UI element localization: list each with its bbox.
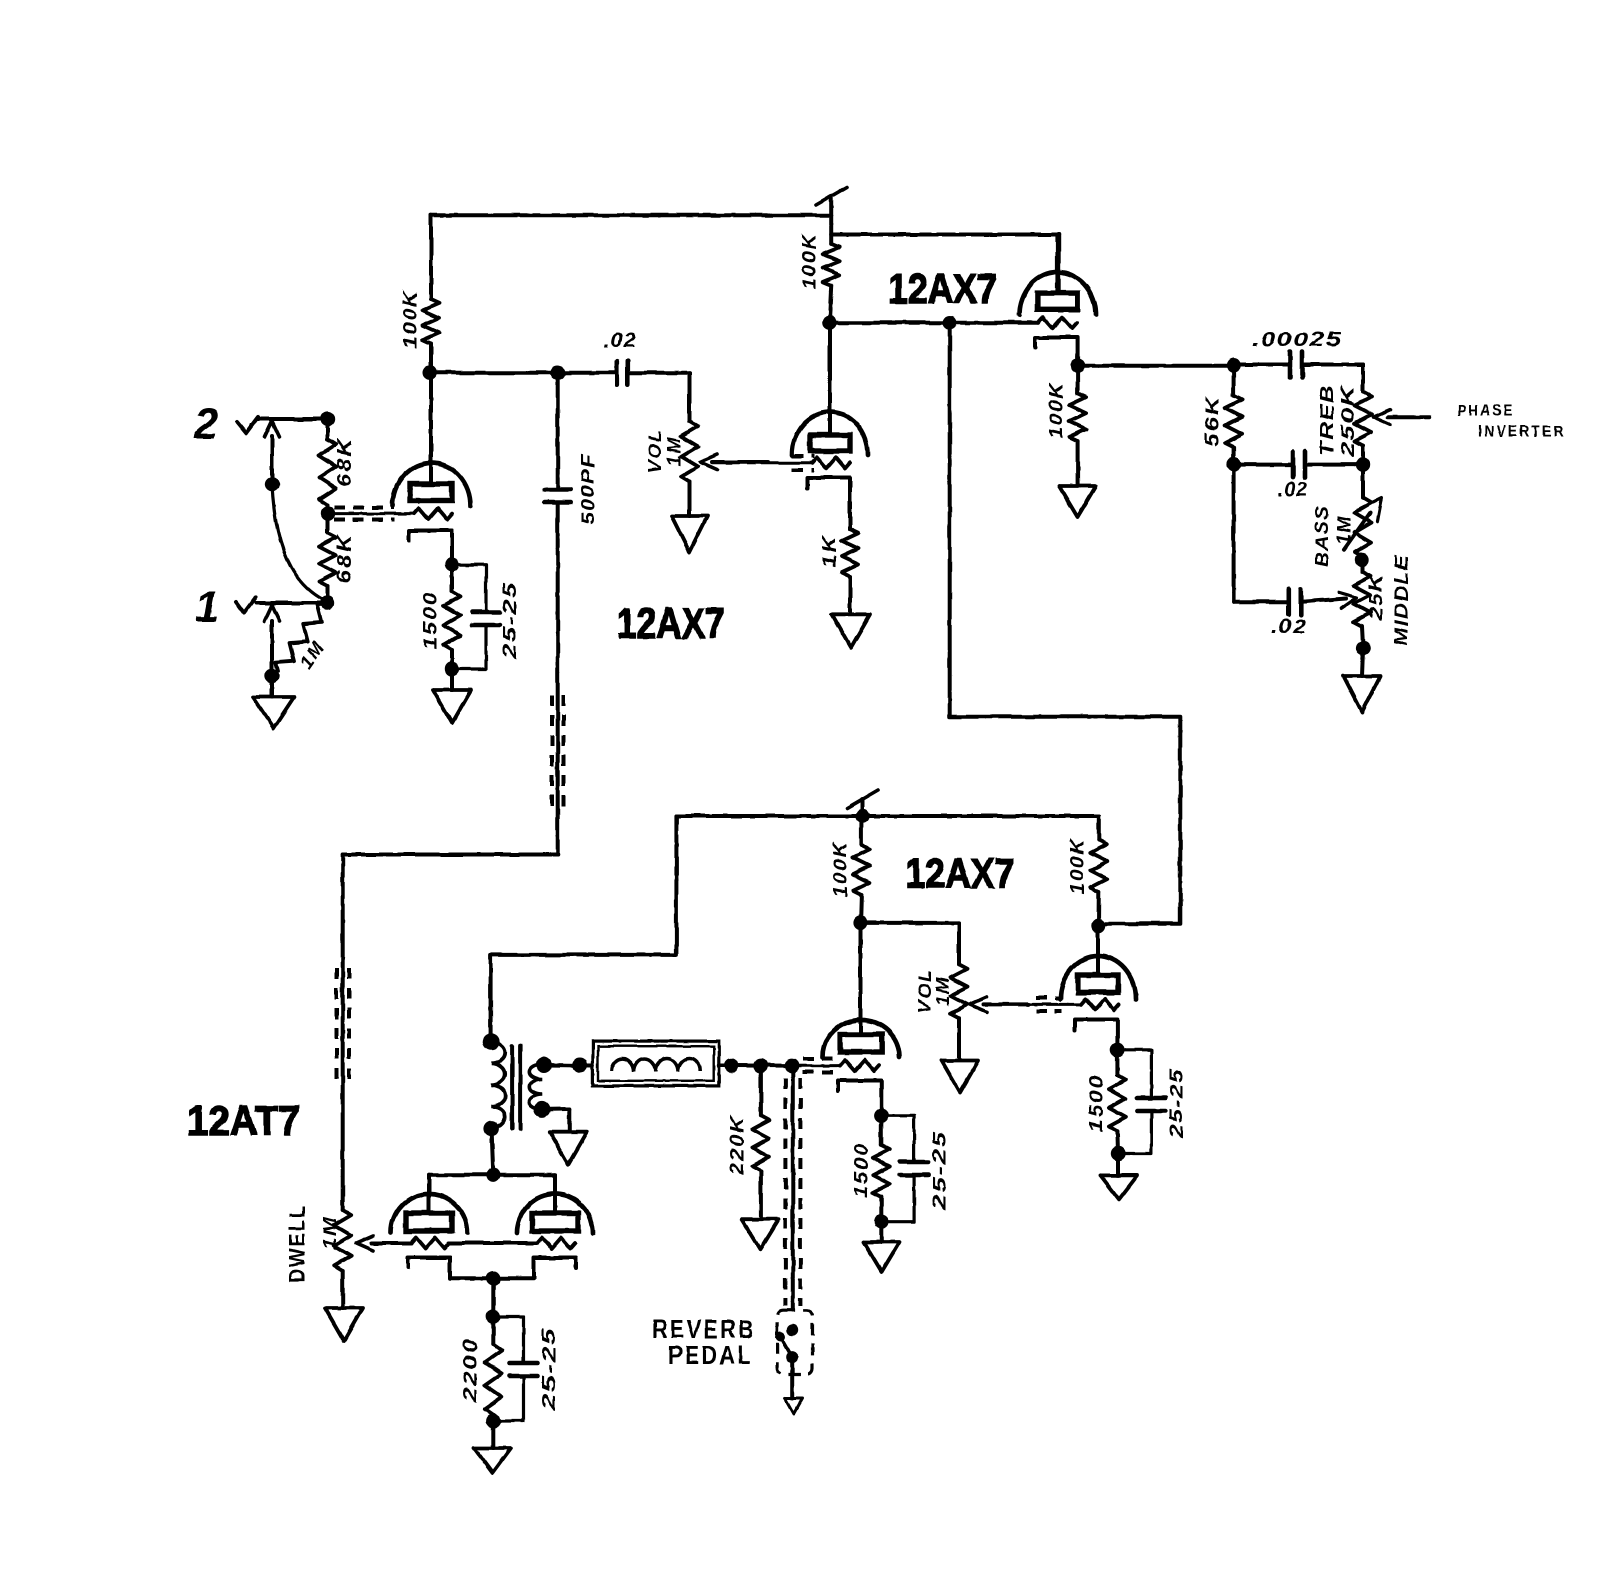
cathode V1A bbox=[409, 531, 452, 565]
label C5 .02 bbox=[1278, 479, 1309, 501]
shield DWELL wire bbox=[337, 968, 350, 1086]
grid V3A bbox=[411, 1238, 449, 1249]
svg-text:100K: 100K bbox=[1047, 382, 1068, 439]
node plate V1B bbox=[822, 316, 836, 330]
label C3 25-25 bbox=[500, 581, 520, 661]
capacitor C6 .02 bbox=[1234, 465, 1346, 615]
node cathode V1A bbox=[445, 558, 459, 572]
svg-text:25-25: 25-25 bbox=[539, 1327, 559, 1412]
label R21 1500 bbox=[1087, 1074, 1108, 1132]
shielded wire to grid V1A bbox=[328, 508, 414, 520]
label REVERB bbox=[652, 1314, 756, 1344]
svg-text:.02: .02 bbox=[1271, 616, 1307, 638]
resistor R2 68K bbox=[319, 514, 336, 603]
svg-text:DWELL: DWELL bbox=[285, 1204, 310, 1283]
svg-text:1M: 1M bbox=[320, 1216, 340, 1250]
transformer T1 core bbox=[512, 1046, 520, 1129]
capacitor C8 25-25 bbox=[881, 1116, 928, 1222]
shielded cable to pedal bbox=[785, 1066, 800, 1310]
grid V4A shielded bbox=[792, 1059, 879, 1073]
wiper R13 arrow bbox=[1339, 592, 1357, 608]
node cathode V4B bbox=[1110, 1043, 1124, 1057]
grid V1A bbox=[414, 508, 452, 519]
label R11 250K bbox=[1338, 383, 1358, 458]
svg-text:1500: 1500 bbox=[852, 1143, 873, 1198]
twin triode V3 plates wire bbox=[429, 1131, 555, 1213]
svg-text:100K: 100K bbox=[831, 841, 852, 898]
ground V4A bbox=[864, 1222, 900, 1272]
svg-text:12AX7: 12AX7 bbox=[888, 266, 997, 312]
svg-text:2200: 2200 bbox=[461, 1337, 482, 1403]
wiper R12 arrow bbox=[1344, 498, 1382, 550]
resistor R20 1500 bbox=[873, 1116, 890, 1222]
svg-text:1500: 1500 bbox=[1087, 1074, 1108, 1132]
svg-text:1500: 1500 bbox=[421, 591, 442, 650]
potentiometer R5 VOL 1M bbox=[681, 421, 698, 482]
label R12 BASS bbox=[1312, 505, 1332, 567]
resistor R8 1K bbox=[842, 529, 859, 613]
label R1 68K bbox=[334, 437, 356, 487]
cathode V2A bbox=[1035, 338, 1078, 366]
svg-text:PHASE: PHASE bbox=[1458, 403, 1515, 420]
wire to C1 bbox=[558, 371, 617, 375]
node R15 top bbox=[486, 1309, 500, 1323]
wiper R11 phase inverter arrow bbox=[1373, 410, 1429, 425]
potentiometer R13 MIDDLE 25K bbox=[1354, 560, 1371, 648]
wire jack2 shorting curve bbox=[265, 477, 326, 601]
ground R16 bbox=[742, 1219, 779, 1249]
node plate V4A bbox=[853, 916, 867, 930]
shield C2 wire bbox=[552, 695, 564, 812]
input jack 1 label bbox=[195, 583, 219, 632]
svg-text:VOL: VOL bbox=[915, 969, 935, 1014]
svg-text:100K: 100K bbox=[401, 289, 422, 349]
wire plate V1A to C2 node bbox=[430, 371, 558, 375]
ground V1A bbox=[433, 669, 471, 723]
svg-text:12AX7: 12AX7 bbox=[617, 600, 725, 648]
ground input bbox=[253, 676, 294, 728]
resistor R1 68K bbox=[319, 419, 336, 514]
wire secondary to tank bbox=[544, 1058, 593, 1073]
cathode V4B bbox=[1075, 1020, 1117, 1050]
node tank output bbox=[724, 1058, 738, 1072]
node cathode V2A bbox=[1070, 359, 1084, 373]
svg-text:BASS: BASS bbox=[1312, 505, 1332, 567]
svg-text:1M: 1M bbox=[664, 436, 684, 466]
label R5 VOL bbox=[645, 429, 665, 474]
label C4 .00025 bbox=[1252, 329, 1342, 351]
svg-text:12AT7: 12AT7 bbox=[187, 1097, 300, 1145]
wire tank output bbox=[719, 1064, 793, 1068]
svg-text:TREB: TREB bbox=[1317, 384, 1337, 456]
svg-text:.02: .02 bbox=[603, 330, 637, 352]
capacitor C5 .02 bbox=[1234, 452, 1363, 478]
triode V3A bbox=[391, 1194, 467, 1233]
ground pedal bbox=[785, 1398, 803, 1414]
wiper R19 arrow bbox=[970, 997, 1028, 1012]
transformer T1 primary bbox=[483, 1033, 506, 1136]
label PHASE bbox=[1458, 403, 1515, 420]
resistor R3 1M bbox=[276, 604, 326, 671]
cathode V4A bbox=[838, 1081, 881, 1116]
node grid1 bbox=[321, 506, 335, 520]
potentiometer R11 TREB 250K bbox=[1355, 365, 1372, 465]
svg-text:25-25: 25-25 bbox=[1167, 1068, 1187, 1139]
grid V2A bbox=[1038, 317, 1077, 328]
resistor R17 100K bbox=[853, 816, 870, 923]
potentiometer R19 VOL 1M bbox=[951, 964, 968, 1018]
label tube 12AX7 top bbox=[888, 266, 997, 312]
svg-text:25-25: 25-25 bbox=[500, 581, 520, 661]
label PEDAL bbox=[668, 1340, 753, 1370]
node secondary top bbox=[536, 1057, 552, 1073]
node 56K bottom bbox=[1226, 457, 1240, 471]
svg-text:1K: 1K bbox=[820, 535, 841, 568]
wire plate V4A to VOL2 bbox=[861, 923, 959, 964]
input jack 2 label bbox=[193, 400, 219, 449]
label C7 25-25 bbox=[539, 1327, 559, 1412]
node C2 bbox=[551, 366, 565, 380]
svg-text:56K: 56K bbox=[1203, 395, 1224, 447]
node cathode V4A bbox=[874, 1109, 888, 1123]
label R9 100K bbox=[1047, 382, 1068, 439]
ground tone stack bbox=[1344, 648, 1381, 712]
label C2 500PF bbox=[578, 453, 598, 525]
svg-text:68K: 68K bbox=[334, 533, 356, 584]
label tube 12AX7 bottom bbox=[906, 851, 1015, 897]
svg-text:MIDDLE: MIDDLE bbox=[1392, 554, 1412, 646]
capacitor C4 .00025 bbox=[1234, 352, 1363, 378]
reverb pedal box bbox=[777, 1310, 812, 1374]
node cathode gnd V4A bbox=[874, 1215, 888, 1229]
grid V3B bbox=[537, 1238, 575, 1249]
wire B+ top rail bbox=[431, 213, 831, 217]
svg-text:250K: 250K bbox=[1338, 383, 1358, 458]
node cathodes V3 bbox=[486, 1271, 500, 1285]
node TREB bottom bbox=[1356, 457, 1370, 471]
resistor R16 220K bbox=[752, 1066, 769, 1218]
node R15 bottom bbox=[486, 1414, 500, 1428]
resistor R18 100K bbox=[1090, 816, 1107, 926]
resistor R15 2200 bbox=[485, 1317, 502, 1422]
label R12 1M bbox=[1334, 515, 1354, 545]
ground secondary bbox=[549, 1132, 587, 1165]
label R13 25K bbox=[1366, 572, 1386, 622]
node cathode gnd V4B bbox=[1111, 1146, 1125, 1160]
node BASS-MIDDLE bbox=[1355, 553, 1369, 567]
resistor R7 100K plate V1B bbox=[823, 244, 840, 323]
svg-text:1M: 1M bbox=[933, 976, 953, 1006]
node input2 bbox=[320, 411, 334, 425]
capacitor C9 25-25 bbox=[1117, 1050, 1165, 1154]
label R17 100K bbox=[831, 841, 852, 898]
label C1 .02 bbox=[603, 330, 637, 352]
triode V1B bbox=[792, 323, 868, 455]
svg-text:PEDAL: PEDAL bbox=[668, 1340, 753, 1370]
label R3 1M bbox=[296, 637, 330, 673]
label R19 1M bbox=[933, 976, 953, 1006]
transformer T1 secondary bbox=[529, 1065, 542, 1110]
input jack 1 bbox=[236, 597, 328, 676]
resistor R4 100K plate V1A bbox=[423, 215, 440, 372]
capacitor C1 .02 bbox=[617, 361, 628, 384]
ground R9 bbox=[1059, 486, 1096, 517]
label R7 100K bbox=[800, 233, 821, 290]
triode V2A cathode follower bbox=[1020, 235, 1096, 315]
label tube 12AX7 mid bbox=[617, 600, 725, 648]
triode V4A bbox=[823, 923, 900, 1057]
label R20 1500 bbox=[852, 1143, 873, 1198]
label C9 25-25 bbox=[1167, 1068, 1187, 1139]
label R14 1M bbox=[320, 1216, 340, 1250]
label R19 VOL bbox=[915, 969, 935, 1014]
svg-text:VOL: VOL bbox=[645, 429, 665, 474]
ground R8 bbox=[832, 614, 870, 647]
svg-text:100K: 100K bbox=[800, 233, 821, 290]
label R16 220K bbox=[728, 1115, 749, 1176]
label DWELL bbox=[285, 1204, 310, 1283]
wire cathode V2A to tone stack bbox=[1078, 364, 1234, 368]
svg-text:1: 1 bbox=[195, 583, 219, 632]
wire mixer node to recovery plate bbox=[950, 323, 1181, 924]
capacitor C7 25-25 bbox=[493, 1317, 537, 1422]
wire plate V1B to grid V2A bbox=[829, 321, 1038, 325]
wire lower B+ rail bbox=[491, 816, 1099, 1044]
node shield cable bbox=[785, 1059, 799, 1073]
triode V1A bbox=[393, 373, 471, 506]
label C8 25-25 bbox=[930, 1130, 950, 1212]
label INVERTER bbox=[1478, 424, 1566, 441]
node V3 plates bbox=[486, 1168, 500, 1182]
capacitor C3 25-25 bbox=[452, 565, 500, 669]
node input1 bbox=[320, 595, 334, 609]
resistor R6 1500 bbox=[444, 565, 461, 669]
svg-text:INVERTER: INVERTER bbox=[1478, 424, 1566, 441]
ground V3 cathode bbox=[474, 1421, 511, 1473]
ground R5 bbox=[672, 482, 708, 552]
svg-text:.02: .02 bbox=[1278, 479, 1309, 501]
ground V4B bbox=[1101, 1154, 1138, 1200]
cathode V3B bbox=[494, 1258, 576, 1279]
label R4 100K bbox=[401, 289, 422, 349]
label R15 2200 bbox=[461, 1337, 482, 1403]
B+ supply bottom bbox=[847, 790, 878, 823]
svg-text:500PF: 500PF bbox=[578, 453, 598, 525]
wiper R14 arrow bbox=[356, 1236, 411, 1251]
wire rail to CF plate bbox=[831, 215, 1058, 293]
triode V3B bbox=[517, 1194, 593, 1233]
node cathode gnd V1A bbox=[445, 662, 459, 676]
wire secondary bottom to gnd bbox=[534, 1101, 570, 1131]
ground R19 bbox=[942, 1018, 979, 1093]
node mixer bbox=[943, 316, 957, 330]
label R5 1M bbox=[664, 436, 684, 466]
svg-text:25-25: 25-25 bbox=[930, 1130, 950, 1212]
wire cathode V3 down bbox=[491, 1278, 495, 1316]
resistor R10 56K bbox=[1225, 365, 1242, 464]
wire C1 to VOL bbox=[628, 373, 690, 421]
grid V1B shielded bbox=[712, 456, 850, 470]
reverb tank bbox=[593, 1041, 719, 1086]
label C6 .02 bbox=[1271, 616, 1307, 638]
node R16 top bbox=[754, 1059, 768, 1073]
wiper R5 arrow bbox=[700, 455, 768, 470]
ground R14 bbox=[325, 1271, 363, 1341]
capacitor C2 500PF bbox=[545, 373, 571, 855]
label R8 1K bbox=[820, 535, 841, 568]
wire grids V3 bbox=[449, 1241, 537, 1245]
node plate V1A bbox=[423, 366, 437, 380]
svg-text:12AX7: 12AX7 bbox=[906, 851, 1015, 897]
input jack 2 bbox=[237, 417, 328, 483]
B+ supply top bbox=[816, 187, 847, 215]
node plate V4B bbox=[1091, 918, 1105, 932]
label tube 12AT7 bbox=[187, 1097, 300, 1145]
svg-text:.00025: .00025 bbox=[1252, 329, 1342, 351]
svg-text:220K: 220K bbox=[728, 1115, 749, 1176]
cathode V3A bbox=[408, 1258, 492, 1279]
svg-text:100K: 100K bbox=[1068, 838, 1089, 895]
label R10 56K bbox=[1203, 395, 1224, 447]
node MIDDLE bottom bbox=[1356, 641, 1370, 655]
label R6 1500 bbox=[421, 591, 442, 650]
label R13 MIDDLE bbox=[1392, 554, 1412, 646]
node jack1 gnd bbox=[265, 669, 279, 683]
potentiometer R12 BASS 1M bbox=[1355, 465, 1372, 558]
resistor R21 1500 bbox=[1109, 1050, 1126, 1154]
cathode V1B bbox=[807, 478, 850, 529]
switch SW1 bbox=[776, 1324, 799, 1398]
svg-text:2: 2 bbox=[193, 400, 219, 449]
potentiometer R14 DWELL 1M bbox=[334, 1210, 351, 1271]
wire to DWELL bbox=[343, 855, 558, 1211]
label R18 100K bbox=[1068, 838, 1089, 895]
grid V4B shielded bbox=[1028, 998, 1119, 1011]
triode V4B bbox=[1061, 926, 1136, 999]
label R2 68K bbox=[334, 533, 356, 584]
svg-text:25K: 25K bbox=[1366, 572, 1386, 622]
svg-text:1M: 1M bbox=[1334, 515, 1354, 545]
node tone input bbox=[1226, 358, 1240, 372]
label R11 TREB bbox=[1317, 384, 1337, 456]
svg-text:68K: 68K bbox=[334, 437, 356, 487]
resistor R9 100K bbox=[1069, 366, 1086, 485]
